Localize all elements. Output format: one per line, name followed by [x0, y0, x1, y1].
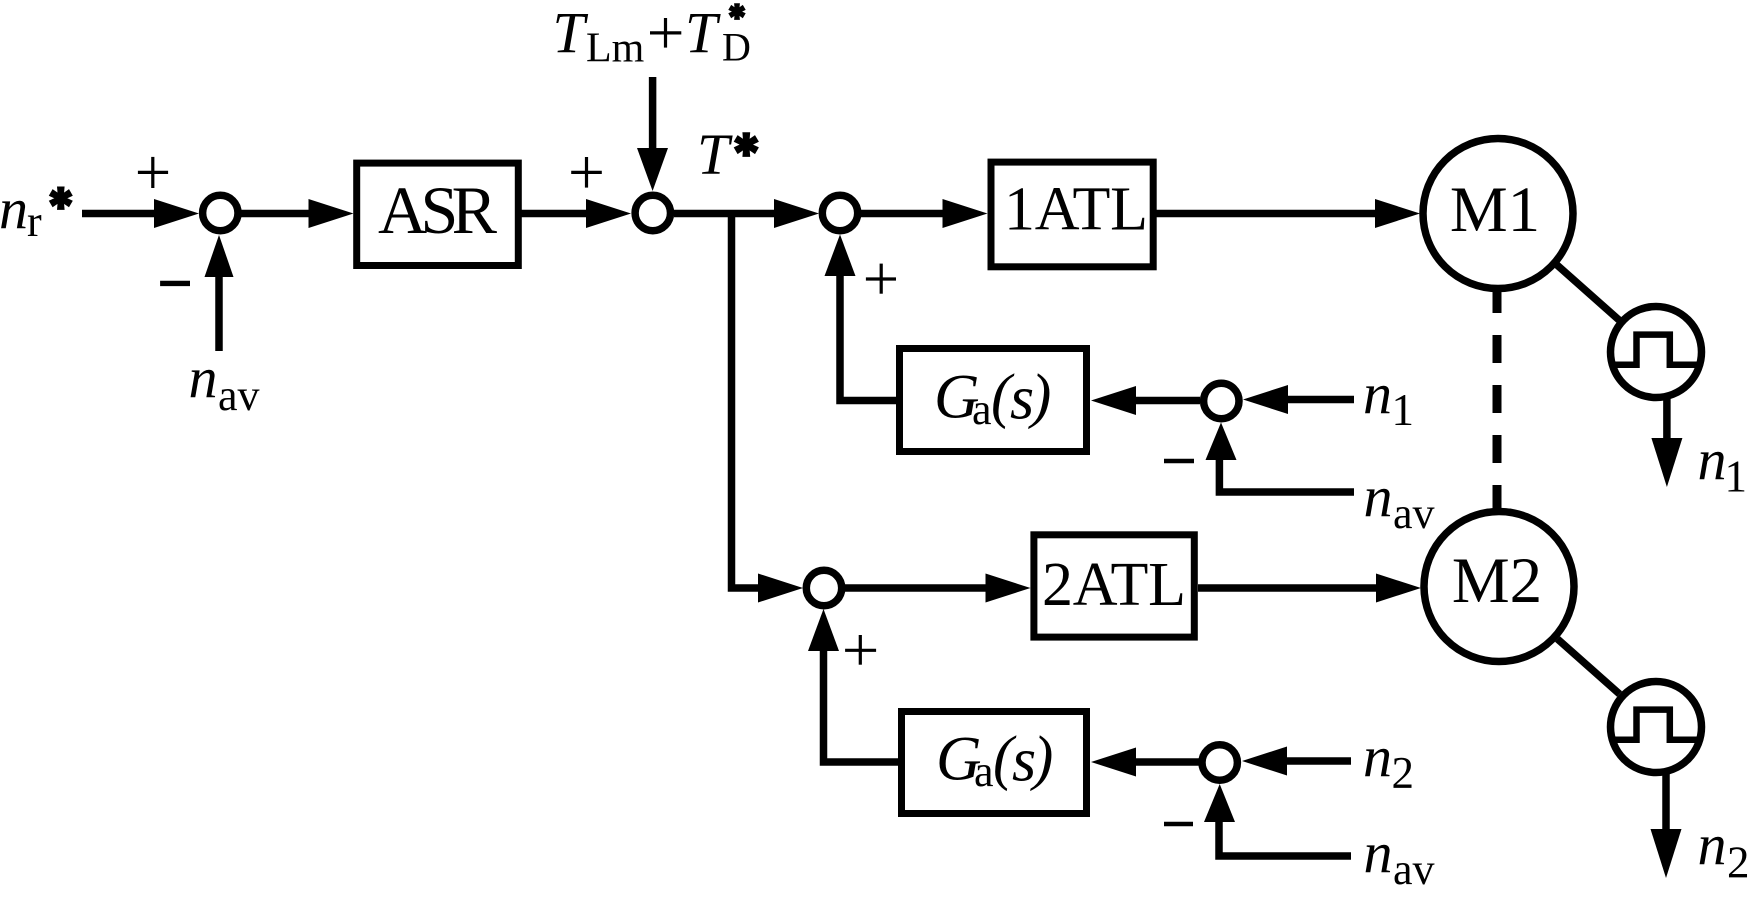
summing junction S3	[822, 195, 857, 230]
wire n_av up into S1	[215, 274, 223, 351]
arrowhead into M1	[1375, 199, 1420, 228]
svg-text:a: a	[972, 385, 992, 434]
svg-text:2: 2	[1392, 748, 1415, 798]
svg-text:2ATL: 2ATL	[1042, 551, 1186, 619]
node T* label	[697, 122, 759, 187]
motor M2	[1424, 512, 1574, 662]
svg-text:n: n	[1363, 724, 1392, 789]
plus sign at S4	[845, 635, 876, 665]
wire BQ1 down to n1	[1663, 399, 1671, 442]
block Ga(s) channel 2	[902, 712, 1087, 814]
svg-text:n: n	[0, 176, 28, 241]
arrowhead into S3	[774, 199, 819, 228]
block 1ATL	[991, 162, 1153, 267]
arrowhead into M2	[1376, 574, 1421, 603]
svg-text:n: n	[1698, 812, 1727, 877]
svg-text:n: n	[189, 345, 218, 410]
arrowhead into Ga1	[1091, 386, 1136, 415]
wire branch down	[732, 214, 761, 589]
node n2 output label	[1698, 812, 1748, 888]
node n_r* input label	[0, 176, 73, 246]
sensor BQ2	[1611, 682, 1702, 773]
svg-text:T: T	[697, 122, 733, 187]
svg-text:D: D	[722, 25, 751, 70]
wire 1ATL to M1	[1157, 210, 1379, 218]
minus sign at S1	[160, 281, 190, 286]
sensor BQ1	[1611, 307, 1702, 398]
svg-text:): )	[1030, 725, 1053, 792]
wire n_av up into F1	[1219, 458, 1354, 492]
svg-text:T: T	[553, 0, 589, 65]
arrowhead into 1ATL	[943, 199, 988, 228]
svg-text:1: 1	[1725, 452, 1748, 502]
block 2ATL	[1034, 535, 1194, 637]
plus sign at S3	[866, 264, 896, 294]
svg-text:T: T	[685, 0, 721, 65]
arrowhead T into S2	[637, 148, 668, 191]
svg-text:ASR: ASR	[378, 172, 498, 248]
svg-text:): )	[1028, 363, 1051, 430]
svg-text:2: 2	[1727, 838, 1748, 888]
summing junction F2	[1202, 745, 1237, 780]
svg-text:n: n	[1363, 361, 1392, 426]
wire junction F2 to Ga2	[1133, 758, 1199, 766]
svg-text:av: av	[1393, 489, 1435, 538]
plus sign at S1	[138, 157, 168, 188]
arrowhead n1 into F1	[1243, 385, 1288, 414]
wire 2ATL to M2	[1198, 584, 1379, 592]
svg-text:Lm: Lm	[586, 26, 645, 72]
arrowhead into S2	[586, 199, 631, 228]
svg-text:M2: M2	[1452, 545, 1542, 617]
svg-text:av: av	[218, 371, 260, 420]
wire n_av up into F2	[1219, 822, 1351, 856]
block Ga(s) channel 1	[900, 349, 1087, 452]
svg-text:n: n	[1364, 820, 1393, 885]
arrowhead into S4	[758, 574, 803, 603]
arrowhead Ga1 into S3	[825, 235, 856, 277]
wire S3 to 1ATL	[861, 210, 946, 218]
arrowhead Ga2 into S4	[808, 609, 839, 651]
wire dashed shaft coupling M1-M2	[1493, 285, 1502, 513]
svg-text:n: n	[1698, 427, 1727, 492]
node n_av feedback 1 label	[1364, 464, 1435, 538]
wire ASR to S2	[522, 210, 591, 218]
wire shaft M2 to sensor BQ2	[1558, 639, 1620, 694]
svg-text:r: r	[27, 197, 42, 246]
node n2 feedback label	[1363, 724, 1414, 798]
arrowhead n2 output	[1651, 829, 1682, 878]
wire n1 into F1	[1286, 396, 1354, 404]
svg-text:a: a	[974, 747, 994, 796]
summing junction S4	[806, 570, 841, 605]
wire S1 to ASR	[241, 210, 312, 218]
pulse symbol BQ1	[1613, 335, 1699, 365]
summing junction S2	[635, 195, 670, 230]
svg-text:1: 1	[1392, 385, 1415, 435]
arrowhead into ASR	[309, 199, 354, 228]
node n_av label (left)	[189, 345, 260, 420]
minus sign at F2	[1164, 822, 1193, 826]
node n1 feedback label	[1363, 361, 1414, 435]
node n1 output label	[1698, 427, 1748, 502]
pulse symbol BQ2	[1613, 710, 1699, 740]
wire S4 to 2ATL	[845, 584, 989, 592]
wire nr* input	[82, 210, 158, 218]
arrowhead into Ga2	[1091, 748, 1136, 777]
arrowhead n_av into F2	[1204, 784, 1235, 822]
wire Ga1 output to S3	[840, 270, 897, 401]
summing junction S1	[203, 195, 238, 230]
summing junction F1	[1204, 383, 1239, 418]
node n_av feedback 2 label	[1364, 820, 1435, 894]
wire BQ2 down to n2	[1662, 774, 1670, 830]
arrowhead n_av into S1	[205, 235, 234, 277]
minus sign at F1	[1164, 459, 1194, 463]
node T_Lm + T_D* label	[553, 0, 751, 71]
svg-text:1ATL: 1ATL	[1004, 176, 1148, 244]
arrowhead n_av into F1	[1206, 423, 1237, 461]
wire n2 into F2	[1286, 757, 1351, 765]
arrowhead n2 into F2	[1242, 747, 1287, 776]
wire junction F1 to Ga1	[1133, 397, 1200, 405]
wire T load torque down	[649, 77, 657, 152]
arrowhead into 2ATL	[986, 574, 1031, 603]
arrowhead n1 output	[1651, 438, 1682, 487]
motor M1	[1423, 139, 1573, 289]
arrowhead into summing junction S1	[154, 199, 199, 228]
wire shaft M1 to sensor BQ1	[1557, 265, 1619, 320]
svg-text:av: av	[1393, 845, 1435, 894]
wire Ga2 output to S4	[824, 645, 899, 762]
wire S2 to S3	[674, 210, 778, 218]
svg-text:M1: M1	[1450, 174, 1540, 246]
block ASR	[357, 163, 519, 265]
plus sign at S2	[571, 157, 602, 188]
svg-text:n: n	[1364, 464, 1393, 529]
